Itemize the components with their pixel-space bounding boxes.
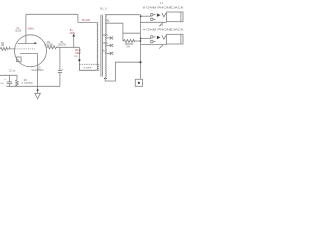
svg-text:YEL: YEL — [105, 19, 110, 22]
wire screen to B+ — [56, 46, 79, 48]
svg-text:140V: 140V — [75, 52, 81, 55]
cathode bar — [20, 52, 38, 54]
svg-text:8 OHM PHONEJACK: 8 OHM PHONEJACK — [143, 5, 185, 9]
svg-text:140V: 140V — [69, 32, 75, 35]
svg-text:1M: 1M — [1, 44, 4, 47]
svg-text:4 OHM PHONEJACK: 4 OHM PHONEJACK — [143, 27, 185, 31]
jack J2 triangle — [157, 36, 161, 40]
wire secondary top — [105, 14, 140, 16]
grid dashed — [15, 48, 35, 50]
wire plate lead vertical — [25, 14, 27, 43]
transformer secondary winding — [104, 15, 107, 77]
tap X 2 — [105, 44, 113, 47]
capacitor C2 plates — [7, 82, 12, 84]
wire C2 branch top — [9, 75, 11, 81]
ground box dot — [138, 82, 140, 84]
ground symbol — [35, 93, 41, 99]
svg-text:6DJ8: 6DJ8 — [15, 29, 21, 32]
wire jack1 sleeve — [141, 21, 167, 23]
wire B+ annotation vertical — [73, 36, 75, 47]
wire jack1 tip jog — [140, 15, 151, 17]
dashed box PSU — [79, 64, 98, 70]
resistor R1 zigzag — [0, 47, 8, 50]
jack J2 circles — [151, 36, 154, 39]
jack J2 plug body — [167, 34, 183, 44]
svg-text:10K/5W: 10K/5W — [44, 44, 53, 47]
wire ground bus vertical — [139, 15, 141, 80]
tube V1 envelope — [15, 35, 47, 67]
wire C3 vertical top — [59, 47, 61, 70]
wire C2 bottom — [9, 84, 11, 86]
wire to dashed box — [78, 47, 80, 70]
wire ground bus — [6, 85, 60, 87]
input wire left — [0, 74, 17, 76]
wire primary top — [78, 21, 97, 23]
dark marks — [35, 13, 161, 91]
wire box bottom to primary — [79, 69, 96, 71]
junction dot jack2 tip — [140, 38, 142, 40]
capacitor C3 plates — [58, 71, 62, 73]
tap X 3 — [105, 52, 113, 55]
svg-text:C2 1u: C2 1u — [9, 69, 16, 72]
wire resistor to bus — [133, 40, 140, 42]
plate bar — [18, 43, 35, 45]
junction dot jack1 tip — [140, 15, 142, 17]
svg-text:B+140: B+140 — [82, 18, 90, 22]
svg-text:+: + — [4, 77, 6, 81]
junction dot resistor bus — [140, 40, 142, 42]
wire jack2 sleeve — [141, 44, 167, 46]
svg-text:4.7R/5W: 4.7R/5W — [21, 82, 33, 85]
wire R3 branch top — [16, 75, 18, 80]
jack J1 chevron — [162, 13, 166, 17]
transformer T1 primary winding — [96, 22, 99, 70]
jack J2 switch diagonal — [159, 45, 163, 49]
svg-text:10uF/450V: 10uF/450V — [31, 69, 44, 72]
wire ground stub — [37, 86, 39, 93]
wire 4ohm feed — [123, 33, 151, 38]
labels — [0, 1, 184, 85]
jack J1 switch diagonal — [159, 22, 163, 26]
wire YEL tap — [105, 23, 123, 41]
heater box — [17, 57, 22, 62]
jack J1 triangle — [157, 13, 161, 17]
svg-text:BLU: BLU — [100, 7, 107, 11]
ground terminal box — [135, 79, 142, 86]
wire cathode vertical — [37, 53, 39, 86]
svg-text:ORG: ORG — [103, 42, 109, 45]
resistor R3 vertical zigzag — [16, 80, 19, 86]
plate arrow — [35, 42, 37, 44]
jack J1 plug body — [167, 12, 183, 22]
wire grid entry — [8, 46, 15, 49]
svg-text:75V: 75V — [74, 56, 78, 58]
junction dot ground stub — [37, 89, 39, 91]
jack J1 circles — [151, 13, 154, 16]
svg-text:POWER: POWER — [83, 67, 92, 69]
tap X 1 — [105, 36, 113, 39]
resistor load zigzag — [123, 39, 135, 42]
wire secondary bottom — [105, 62, 140, 81]
svg-text:BLK: BLK — [103, 49, 108, 52]
wire B+ vertical — [77, 14, 79, 22]
svg-text:10u: 10u — [0, 83, 3, 85]
svg-text:+: + — [62, 67, 64, 71]
B+ arrow up — [72, 34, 75, 37]
svg-text:GRN: GRN — [103, 34, 109, 37]
phase dots secondary bottom — [104, 78, 105, 79]
junction dot ground bus — [139, 61, 141, 63]
svg-text:140V: 140V — [28, 26, 34, 30]
svg-text:5%: 5% — [127, 46, 131, 49]
wire top horizontal — [26, 13, 78, 15]
junction dot screen/psu — [78, 59, 80, 61]
wire C3 vertical bottom — [59, 73, 61, 87]
resistor R4 zigzag screen — [46, 46, 57, 49]
svg-text:J1: J1 — [160, 1, 164, 5]
svg-text:100/2W: 100/2W — [58, 44, 67, 47]
jack J2 chevron — [162, 35, 166, 39]
transformer core — [101, 15, 103, 77]
